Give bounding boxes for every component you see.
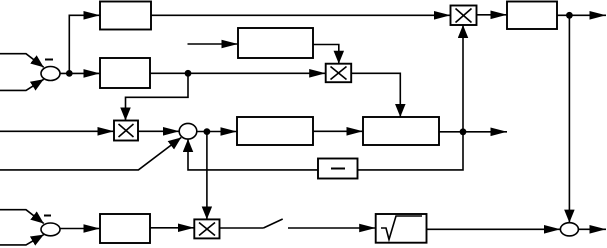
wire X1 to B3	[477, 14, 508, 16]
summing junction S1	[41, 67, 60, 81]
wire J4 up to X1 bottom	[462, 25, 464, 132]
block B1	[100, 2, 151, 30]
multiplier X1	[451, 6, 477, 26]
block B7	[100, 214, 150, 243]
wire X3 to B6 top	[351, 73, 400, 117]
block B5	[237, 117, 313, 145]
wire input 2 to S1	[0, 79, 44, 90]
multiplier X4	[194, 219, 219, 238]
wire sqrt block to S4	[427, 228, 561, 230]
wire input 2 to S3	[0, 235, 44, 245]
node J4	[460, 128, 467, 135]
wire diagonal input to S2	[0, 138, 181, 170]
wire switch to sqrt block	[288, 227, 376, 229]
node J1	[66, 70, 73, 77]
node J5	[566, 12, 573, 19]
wire input 1 to S3	[0, 210, 44, 224]
node J2	[185, 70, 192, 77]
wire J3 down to X4	[206, 132, 208, 220]
wire B7 to X4	[150, 227, 194, 229]
wire input 1 to S1	[0, 54, 44, 68]
minus block N1	[318, 159, 358, 179]
wire S1 output to B2	[60, 72, 101, 74]
wire S2 output to B5	[197, 131, 237, 133]
wire J4 down to minus block	[358, 132, 464, 170]
block B4	[238, 28, 313, 58]
block B2	[100, 58, 150, 88]
wire input to X2	[0, 130, 114, 132]
summing junction S4	[560, 223, 578, 236]
block B6	[363, 117, 439, 145]
summing junction S2	[179, 123, 197, 139]
wire B2 to X3	[150, 72, 326, 74]
wire B4 to X3 top	[313, 45, 339, 64]
multiplier X2	[114, 121, 138, 141]
wire minus block to S2 bottom	[188, 139, 318, 170]
switch SW1	[263, 219, 282, 228]
multiplier X3	[326, 64, 352, 82]
wire B1 to X1	[151, 14, 451, 16]
wire S3 output to B7	[60, 228, 100, 230]
wire B6 output	[439, 131, 507, 133]
wire J2 down to X2	[126, 73, 189, 120]
block B3	[507, 2, 557, 30]
summing junction S3	[41, 223, 60, 236]
node J3	[204, 128, 211, 135]
wire X2 to S2	[138, 130, 180, 132]
wire J5 down to S4	[568, 15, 570, 222]
minus sign at S3	[44, 215, 51, 217]
minus sign at S1	[45, 59, 53, 61]
wire S4 output	[578, 228, 606, 230]
wire J1 up to B1	[69, 15, 100, 73]
sqrt block B8	[376, 214, 427, 243]
wire input to B4	[188, 43, 239, 45]
wire X4 to switch	[220, 227, 264, 229]
wire B3 output	[557, 14, 606, 16]
wire B5 to B6	[313, 130, 363, 132]
